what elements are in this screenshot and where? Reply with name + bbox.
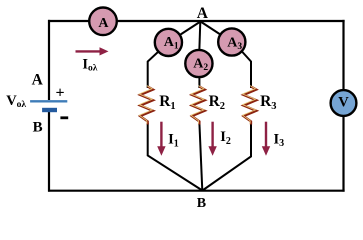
svg-text:A: A xyxy=(197,5,209,22)
svg-text:B: B xyxy=(197,196,206,210)
wire right xyxy=(342,20,344,192)
resistor R1 xyxy=(139,86,175,125)
wire R3 to node B xyxy=(202,123,251,191)
wire bottom xyxy=(48,190,345,192)
wire R1 to node B xyxy=(148,123,203,191)
svg-text:Iολ: Iολ xyxy=(82,56,97,73)
svg-text:+: + xyxy=(56,85,65,102)
wire node A to ammeter A3 xyxy=(201,22,232,43)
ammeter A1 xyxy=(155,29,182,56)
svg-text:I3: I3 xyxy=(274,131,285,149)
svg-text:Vολ: Vολ xyxy=(6,93,26,110)
voltmeter V xyxy=(331,90,357,116)
battery V_ol top plate xyxy=(30,100,67,102)
battery minus sign xyxy=(60,116,68,119)
svg-text:R1: R1 xyxy=(159,93,175,112)
ammeter A (main) xyxy=(89,7,117,35)
wire A3 to R3 xyxy=(242,51,252,88)
wire node A to ammeter A1 xyxy=(168,22,200,43)
current arrow I_ol xyxy=(76,47,109,55)
wire node A to ammeter A2 xyxy=(199,22,200,64)
svg-text:A: A xyxy=(32,71,44,88)
wire A2 to R2 xyxy=(198,64,200,89)
svg-text:V: V xyxy=(338,94,349,110)
wire left lower xyxy=(48,112,50,192)
svg-text:R3: R3 xyxy=(260,93,276,112)
svg-text:I1: I1 xyxy=(168,132,179,150)
ammeter A2 xyxy=(185,50,212,77)
resistor R3 xyxy=(243,86,277,125)
svg-text:R2: R2 xyxy=(209,93,225,112)
wire top xyxy=(48,20,345,22)
svg-text:B: B xyxy=(33,119,43,135)
current arrow I3 xyxy=(262,122,270,156)
wire left upper xyxy=(48,20,50,100)
resistor R2 xyxy=(191,86,225,125)
current arrow I2 xyxy=(208,122,216,156)
svg-text:I2: I2 xyxy=(220,129,231,147)
current arrow I1 xyxy=(157,122,165,156)
svg-text:A: A xyxy=(98,16,109,31)
ammeter A3 xyxy=(218,28,245,55)
battery V_ol bottom plate xyxy=(42,108,57,112)
wire A1 to R1 xyxy=(148,52,159,89)
wire R2 to node B xyxy=(199,123,202,191)
